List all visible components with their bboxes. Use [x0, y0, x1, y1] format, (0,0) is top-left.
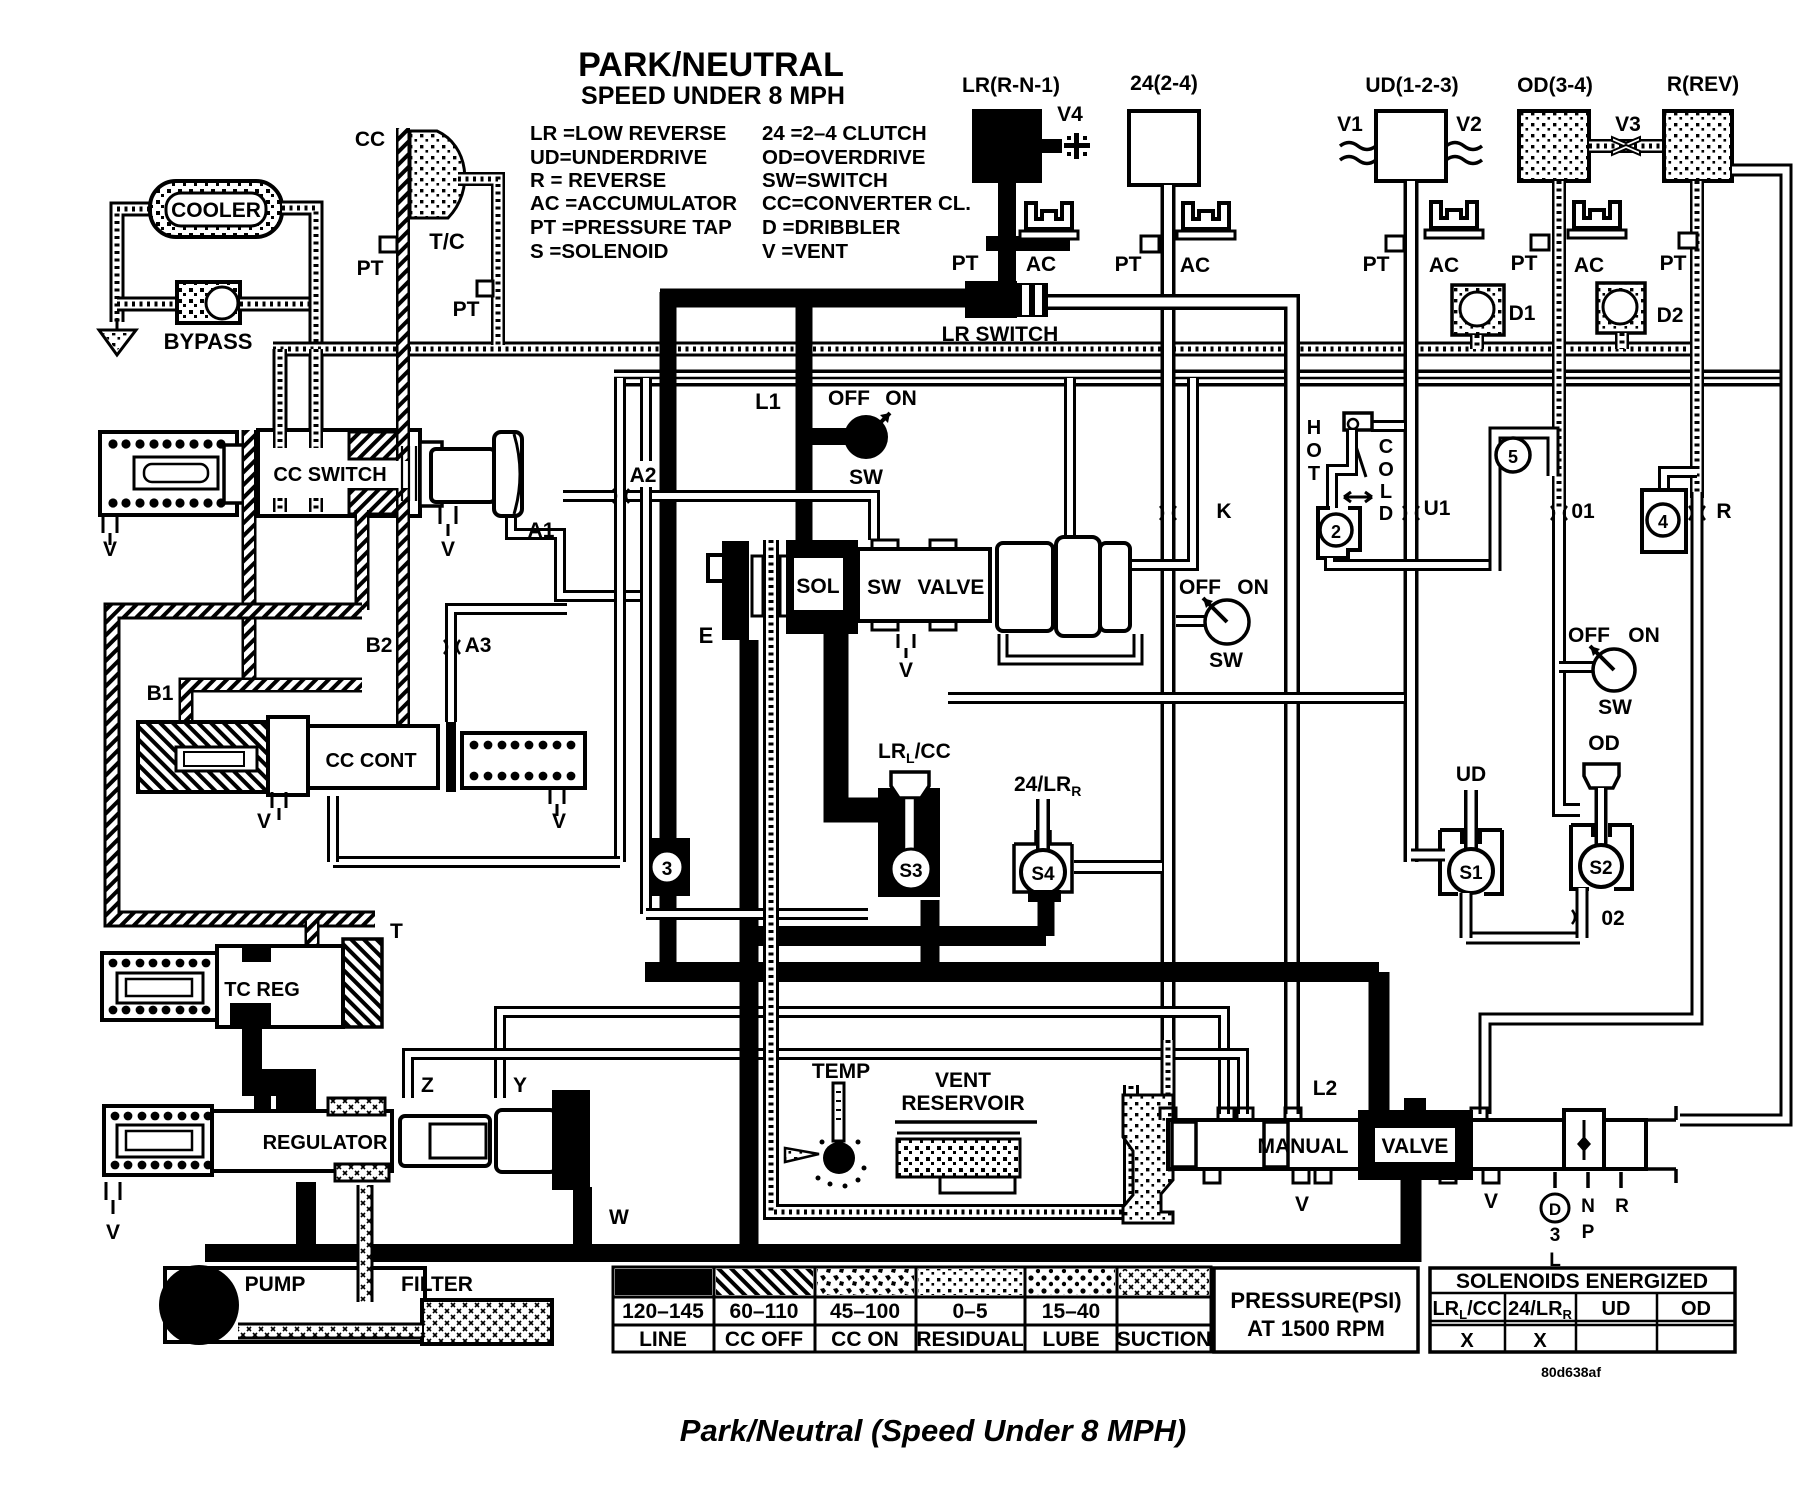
- svg-text:COOLER: COOLER: [171, 199, 261, 222]
- vent V4: [1042, 139, 1062, 153]
- svg-text:H: H: [1307, 417, 1321, 439]
- svg-text:REGULATOR: REGULATOR: [263, 1132, 388, 1154]
- wire CC CONT drain: [327, 796, 339, 862]
- dribbler spray: [785, 1148, 819, 1162]
- bypass arrow (vent to sump): [99, 318, 136, 355]
- pressure tap PT (R): [1679, 233, 1697, 248]
- accumulator AC (UD): [1431, 202, 1477, 228]
- svg-text:4: 4: [1658, 512, 1668, 532]
- CC switch right lands: [420, 442, 442, 506]
- wire E dotted channel: [771, 540, 1131, 1212]
- svg-text:PT: PT: [1115, 253, 1142, 276]
- wire left riser pair b: [640, 378, 652, 914]
- solenoid switch valve body: [708, 555, 722, 581]
- svg-text:CC=CONVERTER CL.: CC=CONVERTER CL.: [762, 192, 971, 215]
- wire bypass feed: [117, 297, 180, 312]
- CC SWITCH bore: [260, 461, 418, 488]
- svg-text:W: W: [609, 1206, 629, 1229]
- wire OD-R connector with restriction: [1589, 139, 1664, 153]
- svg-text:PUMP: PUMP: [245, 1273, 306, 1296]
- wire R return channel: [1485, 492, 1697, 1114]
- wire OD stem / 01 line: [1552, 181, 1566, 520]
- svg-text:TC REG: TC REG: [224, 979, 300, 1001]
- svg-text:SOL: SOL: [796, 575, 839, 598]
- svg-text:PT: PT: [453, 298, 480, 321]
- svg-text:OFF: OFF: [1568, 624, 1610, 647]
- pump body: [165, 1268, 425, 1342]
- svg-text:X: X: [1533, 1330, 1547, 1352]
- label A2: [627, 461, 659, 487]
- filter element: [422, 1300, 552, 1344]
- svg-text:V3: V3: [1615, 113, 1641, 136]
- svg-text:K: K: [1216, 500, 1231, 523]
- svg-text:SW: SW: [867, 576, 901, 599]
- svg-text:3: 3: [662, 859, 673, 880]
- vent V below valve: [898, 634, 914, 658]
- svg-text:D2: D2: [1657, 304, 1684, 327]
- vent V1 squiggle: [1340, 143, 1376, 164]
- svg-text:LR(R-N-1): LR(R-N-1): [962, 74, 1060, 97]
- node A2 break: [613, 489, 629, 503]
- manual valve bottom ports: [1204, 1169, 1499, 1183]
- wire S4 to K: [1074, 860, 1162, 874]
- svg-text:V4: V4: [1057, 103, 1083, 126]
- reservoir tank: [895, 1120, 1037, 1124]
- svg-text:S1: S1: [1459, 863, 1483, 884]
- wire K dotted lube segment: [1161, 1040, 1176, 1110]
- svg-text:U1: U1: [1424, 497, 1451, 520]
- wire S3 drain: [921, 900, 940, 972]
- svg-text:SW=SWITCH: SW=SWITCH: [762, 169, 888, 192]
- svg-text:L: L: [1380, 481, 1392, 503]
- svg-text:Y: Y: [513, 1074, 527, 1097]
- switch SW1: [812, 428, 848, 445]
- wire valve bottom loop to U1: [948, 692, 1404, 704]
- wire thermal valve outlet: [1330, 558, 1497, 565]
- wire CC hatched channel (converter clutch apply): [396, 128, 410, 724]
- vent V2 squiggle: [1446, 143, 1482, 164]
- wire A2 channel: [563, 496, 874, 540]
- pressure legend table: [613, 1267, 1211, 1352]
- node 3 (junction to solenoid feed): [645, 838, 690, 896]
- svg-text:PRESSURE(PSI): PRESSURE(PSI): [1230, 1288, 1401, 1313]
- torque converter dome: [410, 131, 465, 218]
- pressure tap PT (converter out): [477, 281, 493, 296]
- svg-text:24(2-4): 24(2-4): [1130, 72, 1198, 95]
- svg-text:45–100: 45–100: [830, 1300, 900, 1323]
- svg-text:PT: PT: [1511, 252, 1538, 275]
- wire TC REG drain: [242, 1022, 262, 1086]
- svg-text:V: V: [257, 810, 271, 833]
- svg-text:L2: L2: [1313, 1077, 1338, 1100]
- regulator W column: [552, 1090, 590, 1190]
- dribbler D1: [1452, 285, 1504, 335]
- wire left riser pair a: [614, 378, 626, 862]
- valve 4 pocket: [1664, 472, 1697, 492]
- wire A3 channel: [451, 609, 567, 722]
- LR clutch (applied, filled): [972, 109, 1042, 183]
- wire cooler return drop: [273, 349, 288, 432]
- svg-text:V: V: [899, 659, 913, 682]
- svg-text:OFF: OFF: [828, 387, 870, 410]
- bypass valve: [177, 282, 240, 323]
- svg-text:LR SWITCH: LR SWITCH: [942, 323, 1059, 346]
- svg-text:D =DRIBBLER: D =DRIBBLER: [762, 216, 901, 239]
- svg-text:UD=UNDERDRIVE: UD=UNDERDRIVE: [530, 146, 707, 169]
- wire channel to valve top: [1064, 378, 1076, 540]
- valve right extension: [1646, 1106, 1676, 1183]
- wire cooler right to T/C return: [282, 208, 316, 432]
- wire Z channel: [408, 1054, 1243, 1114]
- wire pump output main line: [205, 1244, 1411, 1262]
- wire manual valve supply: [1401, 1165, 1422, 1262]
- wire B2 channel: [355, 510, 370, 610]
- accumulator AC (LR): [1026, 203, 1072, 229]
- svg-text:S4: S4: [1031, 864, 1055, 885]
- wire bypass to main: [240, 297, 316, 312]
- svg-text:80d638af: 80d638af: [1541, 1364, 1601, 1380]
- svg-text:P: P: [1582, 1222, 1595, 1243]
- node 5 bridge: [1495, 433, 1553, 571]
- SW / VALVE sections: [858, 549, 990, 621]
- reverse clutch box (residual): [1664, 111, 1732, 181]
- wire S4 drain: [1038, 897, 1055, 936]
- pressure tap PT (24): [1141, 236, 1159, 252]
- wire suction from regulator: [357, 1185, 374, 1302]
- svg-text:SW: SW: [1209, 649, 1243, 672]
- svg-text:UD(1-2-3): UD(1-2-3): [1365, 74, 1458, 97]
- svg-text:VENT: VENT: [935, 1069, 991, 1092]
- svg-text:RESERVOIR: RESERVOIR: [901, 1092, 1024, 1115]
- svg-text:SW: SW: [849, 466, 883, 489]
- svg-text:ON: ON: [1237, 576, 1269, 599]
- solenoid S3: [878, 788, 940, 897]
- svg-text:A1: A1: [528, 519, 555, 542]
- wire line pressure riser 3: [660, 292, 677, 972]
- wire S2 drain: [1576, 888, 1589, 938]
- vent V (CC switch right): [440, 506, 456, 536]
- detent end: [1564, 1110, 1604, 1169]
- svg-text:B1: B1: [147, 682, 174, 705]
- solenoids energized table: [1430, 1268, 1735, 1352]
- svg-text:CC CONT: CC CONT: [325, 750, 416, 772]
- wire S3/S4 header repaint: [740, 985, 759, 1253]
- svg-text:ON: ON: [885, 387, 917, 410]
- svg-text:CC: CC: [355, 128, 385, 151]
- svg-text:E: E: [699, 623, 714, 648]
- wire T/C shell channel: [458, 179, 498, 345]
- vent V (CC CONT right): [550, 788, 564, 816]
- svg-text:R: R: [1615, 1196, 1629, 1217]
- underdrive clutch box: [1376, 111, 1446, 181]
- svg-text:L1: L1: [755, 389, 781, 414]
- wire S1 drain: [1460, 893, 1473, 938]
- svg-text:T/C: T/C: [429, 229, 465, 254]
- svg-text:AT 1500 RPM: AT 1500 RPM: [1247, 1316, 1385, 1341]
- regulator right lands: [400, 1116, 490, 1166]
- wire solenoid supply header: [645, 962, 1379, 982]
- svg-text:120–145: 120–145: [622, 1300, 704, 1323]
- wire L1 feed to SOL: [796, 292, 813, 545]
- svg-text:N: N: [1581, 1196, 1595, 1217]
- wire LR switch sense line: [1048, 302, 1292, 1114]
- thermal valve: [1371, 420, 1404, 432]
- CC CONT right spring box: [462, 733, 585, 788]
- pump: [159, 1265, 239, 1345]
- gear position D 3 L: [1555, 1172, 1621, 1188]
- 2-4 clutch box: [1129, 111, 1199, 185]
- manual valve top ports: [1160, 1108, 1487, 1120]
- pressure tap PT (OD): [1531, 235, 1549, 250]
- LR pressure switch: [965, 281, 1017, 318]
- svg-text:O: O: [1306, 440, 1322, 462]
- svg-text:X: X: [1460, 1330, 1474, 1352]
- pressure tap PT (UD): [1386, 236, 1404, 251]
- wire U1 jog to S1: [1411, 849, 1445, 862]
- svg-text:R(REV): R(REV): [1667, 73, 1739, 96]
- svg-text:V: V: [552, 810, 566, 833]
- REGULATOR valve: [104, 1106, 212, 1175]
- SOL section: [786, 540, 858, 634]
- svg-text:RESIDUAL: RESIDUAL: [916, 1328, 1024, 1351]
- svg-text:5: 5: [1508, 447, 1518, 467]
- svg-text:V: V: [106, 1221, 120, 1244]
- wire A1 channel: [511, 505, 651, 596]
- wire SOL valve right connect: [1128, 378, 1193, 565]
- svg-text:R: R: [1716, 500, 1731, 523]
- svg-text:PT: PT: [952, 252, 979, 275]
- wire suction channel: [238, 1323, 422, 1340]
- dribbler D2: [1597, 283, 1645, 333]
- svg-text:S2: S2: [1589, 858, 1612, 879]
- vent V (CC switch left): [103, 515, 117, 545]
- svg-text:OFF: OFF: [1179, 576, 1221, 599]
- wire S3/S4 header: [740, 640, 759, 1253]
- svg-text:SW: SW: [1598, 696, 1632, 719]
- svg-text:OD=OVERDRIVE: OD=OVERDRIVE: [762, 146, 925, 169]
- svg-text:PT: PT: [357, 257, 384, 280]
- svg-text:24 =2–4 CLUTCH: 24 =2–4 CLUTCH: [762, 122, 927, 145]
- svg-text:OD: OD: [1588, 732, 1620, 755]
- svg-text:Z: Z: [421, 1074, 434, 1097]
- label B2: [362, 632, 396, 657]
- svg-text:AC: AC: [1180, 254, 1210, 277]
- svg-text:O: O: [1378, 459, 1394, 481]
- svg-text:02: 02: [1601, 907, 1624, 930]
- svg-text:3: 3: [1550, 1225, 1561, 1246]
- svg-text:CC OFF: CC OFF: [725, 1328, 803, 1351]
- wire 02 channel: [1466, 932, 1580, 945]
- svg-text:SOLENOIDS ENERGIZED: SOLENOIDS ENERGIZED: [1456, 1270, 1708, 1293]
- wire hatched U loop: [112, 611, 375, 919]
- overdrive clutch box (residual): [1519, 111, 1589, 181]
- wire main distribution channel: [614, 370, 1786, 387]
- svg-text:V: V: [441, 538, 455, 561]
- svg-text:D: D: [1379, 503, 1393, 525]
- pressure tap PT (converter in): [380, 237, 397, 252]
- svg-text:V: V: [1484, 1190, 1498, 1213]
- wire CC CONT drain channel: [333, 856, 620, 868]
- svg-text:AC =ACCUMULATOR: AC =ACCUMULATOR: [530, 192, 737, 215]
- svg-text:Park/Neutral (Speed Under 8 MP: Park/Neutral (Speed Under 8 MPH): [680, 1413, 1186, 1448]
- svg-text:15–40: 15–40: [1042, 1300, 1100, 1323]
- solenoid S1: [1464, 790, 1478, 852]
- svg-text:S =SOLENOID: S =SOLENOID: [530, 240, 668, 263]
- svg-text:SPEED UNDER 8 MPH: SPEED UNDER 8 MPH: [581, 82, 845, 110]
- accumulator AC (24): [1183, 203, 1229, 229]
- svg-text:OD: OD: [1681, 1298, 1711, 1320]
- svg-text:TEMP: TEMP: [812, 1060, 870, 1083]
- svg-text:LR =LOW REVERSE: LR =LOW REVERSE: [530, 122, 726, 145]
- wire T stub to TC REG: [305, 921, 320, 952]
- svg-text:V1: V1: [1337, 113, 1363, 136]
- suction pocket (manual valve): [1123, 1095, 1173, 1223]
- wire lube drops into CC switch: [273, 349, 287, 448]
- svg-text:0–5: 0–5: [952, 1300, 987, 1323]
- svg-text:CC SWITCH: CC SWITCH: [273, 464, 386, 486]
- switch SW3: [1559, 661, 1593, 673]
- manual valve body: [1168, 1120, 1646, 1169]
- svg-text:A2: A2: [630, 464, 657, 487]
- svg-text:UD: UD: [1602, 1298, 1631, 1320]
- T block: [343, 939, 382, 1027]
- svg-text:V: V: [103, 538, 117, 561]
- svg-text:CC ON: CC ON: [831, 1328, 899, 1351]
- svg-text:D1: D1: [1509, 302, 1536, 325]
- svg-text:V2: V2: [1456, 113, 1482, 136]
- wire regulator drain: [296, 1182, 316, 1250]
- accumulator AC (OD): [1574, 202, 1620, 228]
- svg-text:T: T: [390, 920, 403, 943]
- svg-text:2: 2: [1331, 522, 1341, 542]
- svg-text:LRL/CC: LRL/CC: [878, 740, 951, 766]
- pressure note box: [1214, 1268, 1418, 1352]
- svg-text:S3: S3: [899, 861, 922, 882]
- wire cooler left channel: [117, 209, 150, 322]
- wire to S3 pocket: [646, 908, 868, 920]
- svg-text:AC: AC: [1574, 254, 1604, 277]
- svg-text:C: C: [1379, 436, 1393, 458]
- svg-text:V =VENT: V =VENT: [762, 240, 848, 263]
- wire 24 clutch stem / K line: [1161, 185, 1176, 1114]
- svg-text:PARK/NEUTRAL: PARK/NEUTRAL: [578, 46, 844, 84]
- solenoid S2 funnel: [1584, 764, 1619, 788]
- svg-text:LINE: LINE: [639, 1328, 687, 1351]
- svg-text:VALVE: VALVE: [1382, 1135, 1449, 1158]
- svg-text:BYPASS: BYPASS: [164, 329, 253, 354]
- svg-text:AC: AC: [1429, 254, 1459, 277]
- svg-text:MANUAL: MANUAL: [1258, 1135, 1349, 1158]
- svg-text:FILTER: FILTER: [401, 1273, 473, 1296]
- wire LR clutch feed (line pressure): [998, 183, 1016, 292]
- wire CC channel through valve: [396, 428, 410, 724]
- vent V (regulator): [106, 1182, 120, 1214]
- switch SW2: [1176, 615, 1205, 627]
- hatch bands crossing valve: [349, 432, 408, 459]
- wire SOL drain to S3: [836, 630, 886, 810]
- wire LR switch feed: [660, 289, 968, 308]
- svg-text:A3: A3: [465, 634, 492, 657]
- wire R stem: [1690, 181, 1704, 498]
- svg-text:AC: AC: [1026, 253, 1056, 276]
- LR accumulator branch: [986, 236, 1070, 251]
- wire R box right edge drop: [1680, 170, 1786, 1120]
- wire B1 channel: [186, 685, 362, 726]
- wire UD stem / U1 line: [1404, 181, 1419, 862]
- valve bottom loop: [1003, 634, 1138, 660]
- svg-text:T: T: [1308, 463, 1320, 485]
- svg-text:D: D: [1549, 1200, 1561, 1219]
- TC REG valve: [102, 953, 217, 1020]
- svg-text:OD(3-4): OD(3-4): [1517, 74, 1593, 97]
- svg-text:UD: UD: [1456, 763, 1486, 786]
- svg-text:B2: B2: [366, 634, 393, 657]
- wire main lube line (dotted): [273, 342, 1697, 357]
- svg-text:LUBE: LUBE: [1042, 1328, 1099, 1351]
- vent V (CC CONT left): [272, 792, 286, 820]
- svg-text:VALVE: VALVE: [918, 576, 985, 599]
- svg-text:ON: ON: [1628, 624, 1660, 647]
- svg-text:R = REVERSE: R = REVERSE: [530, 169, 666, 192]
- svg-text:SUCTION: SUCTION: [1117, 1328, 1212, 1351]
- CC CONT valve: [138, 722, 268, 792]
- svg-text:60–110: 60–110: [730, 1300, 799, 1323]
- svg-text:LRL/CC: LRL/CC: [1432, 1298, 1501, 1322]
- CC SWITCH valve: [100, 432, 237, 515]
- svg-text:PT: PT: [1363, 253, 1390, 276]
- valve 2 pocket: [1318, 508, 1360, 558]
- cooler: [150, 181, 282, 237]
- svg-text:PT =PRESSURE TAP: PT =PRESSURE TAP: [530, 216, 732, 239]
- svg-text:V: V: [1295, 1193, 1309, 1216]
- wire Y channel: [500, 1012, 1224, 1114]
- valve spool lands: [997, 543, 1053, 631]
- wire manual valve feed riser: [1369, 972, 1390, 1120]
- svg-text:01: 01: [1571, 500, 1595, 523]
- solenoid S4: [1036, 799, 1050, 853]
- valve land (black): [1358, 1110, 1473, 1180]
- wire B-channel 1: [242, 430, 257, 683]
- svg-text:PT: PT: [1660, 252, 1687, 275]
